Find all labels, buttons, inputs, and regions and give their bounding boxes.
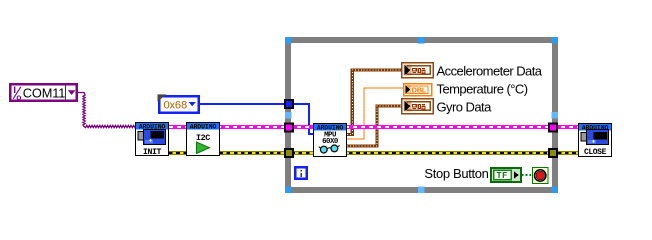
svg-text:COM11: COM11 <box>23 85 65 100</box>
svg-text:Temperature (°C): Temperature (°C) <box>437 81 528 96</box>
wire: brown cluster wire MPU to Gyro Data <box>347 106 401 146</box>
wire: green boolean dotted wire TF to loop condition <box>522 174 532 176</box>
Arduino CLOSE VI <box>579 124 612 158</box>
wire: purple VISA resource zigzag COM11 to INIT <box>78 93 136 128</box>
Arduino INIT VI <box>136 123 169 158</box>
loop condition terminal (stop sign) <box>533 168 549 184</box>
wire: magenta VISA wire INIT to CLOSE <box>169 125 578 129</box>
svg-text:Stop Button: Stop Button <box>424 166 488 181</box>
svg-text:60X0: 60X0 <box>322 138 339 146</box>
svg-text:Accelerometer Data: Accelerometer Data <box>437 63 543 78</box>
wire: blue I2C-address wire 0x68 to MPU <box>200 104 313 134</box>
indicator icon: Accelerometer Data (array of DBL) <box>402 63 434 78</box>
while loop border <box>285 37 558 193</box>
tunnel: olive error on left border <box>285 149 293 157</box>
VISA resource control COM11 <box>9 83 78 102</box>
wire: brown cluster wire MPU to Accelerometer Data <box>347 70 401 135</box>
svg-text:INIT: INIT <box>143 148 162 157</box>
svg-text:ARDUINO: ARDUINO <box>190 124 217 131</box>
tunnel: magenta VISA on left border <box>285 124 293 132</box>
tunnel: blue (0x68 address) on left border <box>285 100 293 108</box>
iteration terminal i <box>294 166 308 180</box>
tunnel: olive error on right border <box>549 149 557 157</box>
svg-text:CLOSE: CLOSE <box>584 148 607 157</box>
boolean TF terminal (Stop Button) <box>490 167 522 183</box>
loop selection handles <box>285 37 558 193</box>
svg-text:Gyro Data: Gyro Data <box>437 99 493 114</box>
Arduino I2C VI <box>187 123 220 156</box>
tunnel: magenta VISA on right border <box>549 124 557 132</box>
Arduino MPU 6050 VI <box>314 124 347 157</box>
svg-text:0x68: 0x68 <box>164 100 187 112</box>
wire: orange DBL wire MPU to Temperature <box>347 88 404 139</box>
svg-text:I2C: I2C <box>196 133 210 143</box>
wire: error cluster wire INIT to CLOSE <box>169 151 578 155</box>
svg-text:TF: TF <box>496 171 507 181</box>
svg-text:DBL: DBL <box>412 85 427 94</box>
indicator icon: Gyro Data (array of DBL) <box>402 99 434 114</box>
ring constant 0x68 <box>158 94 201 114</box>
indicator icon: Temperature DBL <box>404 84 432 96</box>
